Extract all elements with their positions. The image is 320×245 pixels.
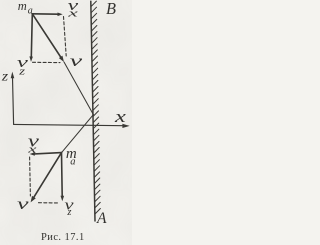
- svg-text:z: z: [66, 207, 71, 218]
- svg-text:x: x: [114, 107, 127, 126]
- svg-text:x: x: [27, 143, 37, 155]
- svg-text:Рис. 17.1: Рис. 17.1: [41, 232, 84, 243]
- svg-text:z: z: [1, 69, 9, 84]
- svg-text:z: z: [18, 67, 25, 78]
- svg-text:a: a: [70, 156, 75, 167]
- svg-text:v: v: [17, 196, 30, 213]
- svg-text:v: v: [70, 53, 84, 70]
- svg-text:a: a: [28, 5, 33, 16]
- svg-text:B: B: [106, 0, 117, 18]
- svg-text:m: m: [18, 0, 27, 13]
- svg-text:A: A: [96, 210, 107, 227]
- svg-text:x: x: [66, 8, 78, 20]
